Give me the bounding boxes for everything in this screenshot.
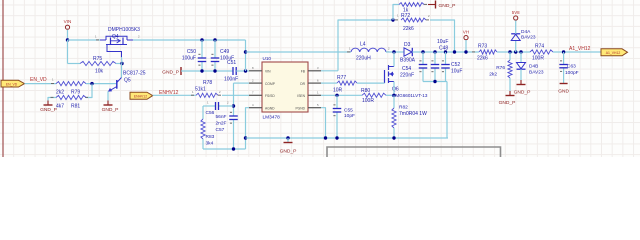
- svg-text:ISEN: ISEN: [297, 94, 305, 98]
- svg-text:2k2: 2k2: [489, 72, 497, 78]
- svg-text:1: 1: [349, 47, 351, 51]
- node base junction: [90, 82, 93, 85]
- wire R72 right to output rail: [430, 20, 455, 52]
- svg-text:1: 1: [397, 14, 399, 18]
- node R76 top: [508, 50, 511, 53]
- gray note box (bottom): [327, 147, 501, 157]
- svg-text:3k4: 3k4: [206, 141, 214, 147]
- svg-text:R77: R77: [337, 75, 346, 81]
- svg-text:2: 2: [138, 35, 140, 39]
- svg-text:COMP: COMP: [265, 82, 276, 86]
- svg-text:R79: R79: [71, 90, 80, 96]
- port ENHV12: [130, 92, 153, 99]
- wire ground rail under caps: [181, 70, 230, 72]
- node D4A tap: [514, 50, 517, 53]
- svg-text:2: 2: [388, 47, 390, 51]
- svg-text:R75: R75: [93, 56, 102, 62]
- pin DR 6: [308, 82, 321, 84]
- resistor R78 51k1: [196, 93, 218, 97]
- node VH tap: [464, 50, 467, 53]
- svg-text:D4B: D4B: [529, 64, 538, 70]
- svg-text:2: 2: [219, 90, 221, 94]
- pin FB 3: [308, 70, 321, 72]
- node caps bottom junction: [433, 80, 436, 83]
- ground GND below C63: [560, 83, 568, 85]
- svg-text:220nF: 220nF: [400, 73, 414, 79]
- svg-text:51k1: 51k1: [195, 87, 206, 93]
- svg-text:1k: 1k: [403, 8, 409, 14]
- svg-text:VH: VH: [463, 30, 469, 35]
- svg-text:ENHV12: ENHV12: [134, 94, 147, 98]
- svg-text:100uF: 100uF: [182, 56, 196, 62]
- ground GND_P below rail: [287, 138, 289, 143]
- resistor R75 10k: [80, 61, 116, 65]
- svg-text:C50: C50: [187, 49, 196, 55]
- diode D4B BAV23 (clamp to ground): [520, 52, 522, 63]
- svg-text:B390A: B390A: [400, 58, 416, 64]
- wire output caps bottom rail: [423, 81, 447, 83]
- node start of boost rail: [244, 50, 247, 53]
- capacitor C52 10uF: [445, 52, 447, 65]
- node VIN junction: [66, 38, 69, 41]
- svg-text:3: 3: [317, 66, 319, 70]
- svg-text:100nF: 100nF: [224, 77, 238, 83]
- capacitor C56 56nF (horizontal): [219, 105, 234, 107]
- svg-text:EN_VD: EN_VD: [30, 77, 47, 83]
- svg-text:C55: C55: [344, 107, 353, 113]
- wire DR pin to R77: [321, 82, 337, 84]
- wire D3 cathode to output rail: [412, 51, 479, 53]
- svg-text:2: 2: [252, 78, 254, 82]
- svg-text:VIN: VIN: [265, 70, 271, 74]
- wire VIN rail to Q4 source: [68, 39, 101, 41]
- svg-text:Q4: Q4: [112, 34, 119, 40]
- wire Q4 gate down: [107, 45, 122, 58]
- resistor R83 3k4 (vertical): [202, 106, 204, 119]
- wire R81 right lead up to base node: [86, 84, 92, 98]
- wire boost rail from VIN node to L4: [246, 51, 352, 53]
- svg-text:10uF: 10uF: [451, 69, 462, 75]
- wire C51 to VIN pin: [236, 70, 249, 72]
- svg-text:C57: C57: [216, 127, 225, 133]
- svg-text:100pF: 100pF: [565, 70, 579, 76]
- wire R79 to Q5 base: [86, 83, 113, 85]
- transistor Q4 DMPH1005K3 (P-MOSFET): [100, 39, 106, 41]
- node GND_P tap: [286, 136, 289, 139]
- svg-text:10k: 10k: [95, 69, 104, 75]
- svg-text:7: 7: [252, 91, 254, 95]
- diode D3 B390A (schottky): [404, 48, 412, 56]
- svg-text:C52: C52: [451, 62, 460, 68]
- svg-text:2: 2: [227, 101, 229, 105]
- svg-text:DR: DR: [300, 82, 305, 86]
- svg-text:R76: R76: [496, 65, 505, 71]
- node COMP comp-network junction: [232, 104, 235, 107]
- svg-text:LM3478: LM3478: [263, 115, 281, 121]
- svg-text:1: 1: [317, 91, 319, 95]
- ground GND_P right of 1k: [435, 1, 437, 9]
- svg-text:1: 1: [95, 35, 97, 39]
- wire COMP down: [233, 83, 235, 116]
- node C63 tap: [562, 50, 565, 53]
- svg-text:D4A: D4A: [521, 29, 531, 35]
- wire R80 to sense node: [386, 94, 394, 96]
- node sense node (Q6 source / R82): [392, 94, 395, 97]
- svg-text:8: 8: [252, 66, 254, 70]
- svg-text:C63: C63: [567, 64, 576, 70]
- node C54 top: [421, 50, 424, 53]
- svg-text:1: 1: [192, 90, 194, 94]
- svg-text:U10: U10: [263, 56, 272, 61]
- wire caps return down to ground rail: [446, 82, 448, 139]
- node C55 bottom on ground rail: [335, 136, 338, 139]
- ground GND_P below D4B: [517, 84, 526, 86]
- resistor R80 100R: [362, 93, 386, 97]
- svg-text:R73: R73: [478, 44, 487, 50]
- wire EN_VD to R79: [25, 83, 57, 85]
- svg-text:10pF: 10pF: [344, 113, 355, 119]
- inductor L4 220uH: [347, 51, 350, 52]
- resistor R76 2k2 (vertical): [509, 52, 511, 60]
- svg-text:R81: R81: [71, 104, 80, 110]
- svg-text:Q5: Q5: [124, 78, 131, 84]
- svg-text:10uF: 10uF: [437, 39, 448, 45]
- resistor R81 4k7: [56, 95, 86, 99]
- svg-text:R74: R74: [535, 44, 544, 50]
- wire Q6 drain up to switch node: [393, 52, 395, 67]
- wire divider junction up to 1k resistor: [393, 5, 399, 21]
- svg-text:PGND: PGND: [295, 107, 305, 111]
- svg-text:C51: C51: [227, 60, 236, 66]
- node C52 top: [444, 50, 447, 53]
- op-amp U10 LM3478 (boost controller IC): [262, 62, 308, 112]
- svg-text:R72: R72: [401, 13, 410, 19]
- wire comp network bottom rail: [203, 148, 246, 150]
- svg-text:6: 6: [317, 78, 319, 82]
- resistor R73 22k6: [472, 51, 475, 52]
- node C49 bottom: [213, 69, 216, 72]
- svg-text:GND_P: GND_P: [439, 3, 456, 9]
- svg-text:GND_P: GND_P: [162, 70, 179, 76]
- wire R78 to FS/SD pin: [222, 94, 249, 96]
- node PGND rail junction: [324, 136, 327, 139]
- svg-text:AGND: AGND: [265, 107, 275, 111]
- transistor Q6 DMG6601LVT-13 (N-MOSFET): [384, 70, 386, 83]
- capacitor C48 10uF: [434, 52, 436, 65]
- wire AGND down to ground rail: [246, 108, 250, 138]
- svg-text:Q6: Q6: [392, 87, 399, 93]
- node C49 top: [213, 38, 216, 41]
- wire R75 right to Q4 gate / Q5 collector node: [116, 63, 122, 65]
- svg-text:56nF: 56nF: [216, 114, 227, 120]
- sheet border (left edge): [2, 0, 4, 157]
- svg-text:D3: D3: [404, 42, 411, 48]
- svg-text:10R: 10R: [333, 88, 343, 94]
- resistor 1k to GND_P: [399, 3, 424, 7]
- wire Q5 collector up to gate node: [121, 64, 123, 78]
- svg-text:220uH: 220uH: [356, 56, 371, 62]
- svg-text:GND_P: GND_P: [499, 100, 516, 106]
- wire VIN rail corner down: [245, 40, 247, 71]
- svg-text:4k7: 4k7: [56, 104, 64, 110]
- wire R74 to output port: [553, 51, 601, 53]
- svg-text:EN_VD: EN_VD: [6, 82, 18, 86]
- port EN_VD: [1, 80, 25, 87]
- node C48 top: [433, 50, 436, 53]
- wire Q5 emitter down to ground: [107, 91, 109, 100]
- pin COMP 2: [249, 82, 262, 84]
- wire R77 to Q6 gate: [357, 82, 385, 84]
- resistor R79 2k2: [56, 82, 86, 86]
- ground GND_P below R81: [44, 104, 53, 106]
- wire R81 left lead to ground: [48, 98, 56, 101]
- svg-text:VIN: VIN: [64, 19, 72, 24]
- wire main ground rail: [246, 137, 449, 139]
- node C50 top: [200, 38, 203, 41]
- wire VIN down to R75: [67, 40, 69, 64]
- capacitor C55 10pF (ISEN filter): [336, 95, 338, 108]
- wire FB pin right: [321, 70, 338, 72]
- node R72 output tap: [453, 50, 456, 53]
- svg-text:5V8: 5V8: [512, 10, 520, 15]
- svg-text:R80: R80: [361, 88, 370, 94]
- transistor Q5 BC817-25 (NPN): [113, 83, 117, 85]
- node switch node (L4/D3/Q6 drain): [392, 50, 395, 53]
- wire to R75 left: [68, 63, 81, 65]
- wire FB up to divider junction: [338, 20, 393, 71]
- capacitor C54 220nF: [422, 52, 424, 65]
- resistor R72 22k6: [395, 19, 398, 20]
- pin FS/SD 7: [249, 94, 262, 96]
- svg-text:DMPH1005K3: DMPH1005K3: [108, 27, 140, 33]
- svg-text:22k6: 22k6: [403, 26, 414, 32]
- wire ISEN to R80: [321, 94, 362, 96]
- node VIN pin junction: [244, 69, 247, 72]
- wire D4B to ground: [520, 69, 522, 80]
- resistor R82 7m0R04 1W (sense): [393, 95, 395, 108]
- wire L4 to switch node: [386, 51, 404, 53]
- pin AGND 4: [249, 107, 262, 109]
- pin PGND 5: [308, 107, 321, 109]
- node gate junction: [120, 62, 123, 65]
- capacitor C57 2n2F (vertical): [233, 115, 235, 117]
- capacitor C63 100pF: [563, 52, 565, 65]
- svg-text:2k2: 2k2: [56, 90, 64, 96]
- svg-text:DMG6601LVT-13: DMG6601LVT-13: [392, 93, 428, 98]
- node C57 bottom: [232, 147, 235, 150]
- svg-text:GND_P: GND_P: [40, 107, 57, 113]
- svg-text:L4: L4: [360, 42, 366, 48]
- svg-text:R78: R78: [203, 80, 212, 86]
- svg-text:2: 2: [428, 14, 430, 18]
- node R82 bottom on ground rail: [392, 136, 395, 139]
- svg-text:GND: GND: [558, 89, 569, 95]
- svg-text:BAV23: BAV23: [521, 35, 536, 41]
- node D4B top: [519, 50, 522, 53]
- capacitor C49 100uF: [214, 40, 216, 58]
- svg-text:C54: C54: [402, 66, 411, 72]
- svg-text:GND_P: GND_P: [280, 149, 297, 155]
- pin VIN 8: [249, 70, 262, 72]
- svg-text:1: 1: [207, 101, 209, 105]
- diode D4A BAV23 (clamp to 5V8): [515, 41, 517, 53]
- ground GND_P below R76: [506, 95, 515, 97]
- svg-text:GND_P: GND_P: [102, 107, 119, 113]
- wire 1k to GND_P bar: [428, 4, 436, 6]
- wire Q4 drain to VIN rail: [133, 39, 246, 41]
- capacitor C51 100nF (horizontal): [230, 70, 233, 72]
- ground GND_P below Q5: [104, 104, 113, 106]
- svg-text:A1_VH12: A1_VH12: [606, 51, 621, 55]
- wire ENHV12 to R78: [153, 94, 196, 96]
- wire R73 to clamp node: [497, 51, 530, 53]
- svg-text:C56: C56: [206, 110, 215, 116]
- svg-text:BAV23: BAV23: [529, 70, 544, 76]
- capacitor C50 100uF: [201, 40, 203, 58]
- wire PGND down to ground rail: [321, 108, 326, 138]
- svg-text:FS/SD: FS/SD: [265, 94, 275, 98]
- svg-text:BC817-25: BC817-25: [123, 71, 146, 77]
- resistor R74 100R: [530, 50, 553, 54]
- svg-text:R83: R83: [206, 134, 215, 140]
- node ground rail left junction: [244, 136, 247, 139]
- node FB divider junction: [391, 18, 394, 21]
- pin ISEN 1: [308, 94, 321, 96]
- wire comp rail up to ground rail: [245, 138, 247, 149]
- svg-text:R82: R82: [399, 105, 408, 111]
- resistor R77 10R: [337, 81, 357, 85]
- svg-text:2n2F: 2n2F: [216, 121, 227, 127]
- svg-text:100R: 100R: [532, 56, 544, 62]
- svg-text:22k6: 22k6: [477, 56, 488, 62]
- svg-text:4: 4: [252, 103, 254, 107]
- svg-text:5: 5: [317, 103, 319, 107]
- svg-text:100R: 100R: [362, 98, 374, 104]
- wire Q6 source down: [393, 82, 395, 96]
- svg-text:1: 1: [52, 78, 54, 82]
- svg-text:GND_P: GND_P: [514, 90, 531, 96]
- svg-text:A1_VH12: A1_VH12: [569, 46, 591, 52]
- svg-text:C48: C48: [439, 46, 448, 52]
- svg-text:C49: C49: [220, 49, 229, 55]
- node ISEN junction (C55 tap): [335, 94, 338, 97]
- port A1_VH12: [601, 49, 628, 56]
- svg-text:7m0R04 1W: 7m0R04 1W: [399, 111, 427, 117]
- node C50 bottom: [200, 69, 203, 72]
- wire COMP pin left: [234, 82, 250, 84]
